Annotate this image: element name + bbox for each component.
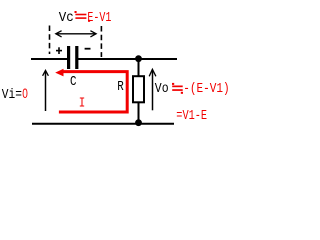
svg-text:Vc: Vc (59, 10, 74, 26)
svg-text:0: 0 (22, 86, 28, 101)
svg-text:C: C (70, 74, 77, 90)
svg-text:=V1-E: =V1-E (176, 108, 207, 124)
svg-text:E-V1: E-V1 (87, 10, 111, 26)
svg-text:Vo: Vo (155, 81, 169, 97)
svg-text:-(E-V1): -(E-V1) (183, 81, 229, 97)
svg-text:Vi=: Vi= (2, 87, 22, 103)
svg-text:I: I (79, 95, 86, 111)
svg-text:R: R (117, 79, 124, 95)
